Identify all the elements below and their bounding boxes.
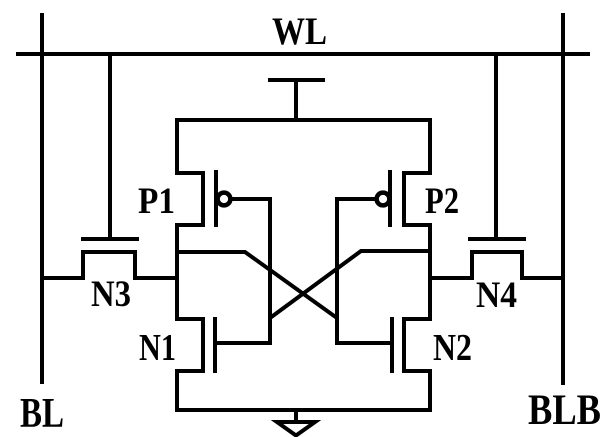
wire left supply rail segment [175, 118, 179, 175]
wire P2 gate lead [335, 197, 376, 201]
transistor N3 [42, 239, 179, 280]
svg-text:N3: N3 [91, 274, 131, 315]
wire N2 gate lead [335, 341, 392, 345]
power VDD symbol [268, 78, 325, 120]
svg-text:BLB: BLB [528, 387, 601, 434]
transistor P1 [175, 170, 230, 227]
svg-text:P2: P2 [425, 181, 459, 222]
wire cross-couple left vertical [268, 197, 272, 345]
svg-text:P1: P1 [138, 181, 175, 222]
wire N1 gate lead [215, 341, 272, 345]
wire VDD rail [175, 118, 432, 122]
svg-text:BL: BL [20, 391, 64, 437]
wire N3 gate from WL [108, 54, 112, 237]
svg-text:N4: N4 [476, 275, 517, 316]
wire P1 gate lead [231, 197, 272, 201]
wire ground rail [175, 408, 432, 412]
wire node Q to right gates [177, 252, 337, 318]
transistor N2 [392, 317, 432, 373]
svg-text:N1: N1 [139, 327, 176, 369]
wire WL word line [16, 52, 590, 56]
wire BL bit line [40, 13, 44, 384]
wire right node rail segment [428, 223, 432, 321]
transistor P2 [377, 170, 432, 227]
wire BLB bit line bar [561, 13, 565, 385]
transistor N1 [175, 317, 215, 373]
wire node QB to left gates [270, 251, 430, 318]
wire right supply rail segment [428, 118, 432, 175]
svg-text:N2: N2 [433, 327, 472, 369]
wire left rail to ground [175, 369, 179, 412]
ground [277, 410, 315, 436]
wire left node rail segment [175, 223, 179, 321]
svg-text:WL: WL [272, 10, 327, 53]
transistor N4 [430, 239, 563, 280]
wire cross-couple right vertical [335, 197, 339, 345]
wire N4 gate from WL [494, 54, 498, 237]
wire right rail to ground [428, 369, 432, 412]
